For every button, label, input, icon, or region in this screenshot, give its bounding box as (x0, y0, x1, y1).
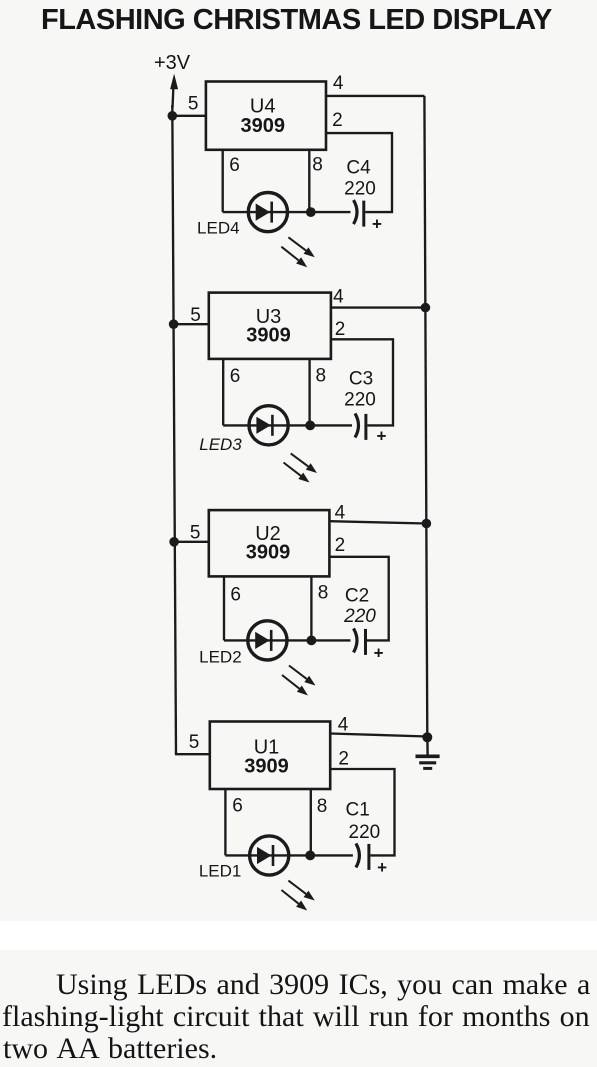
svg-text:6: 6 (230, 585, 241, 606)
svg-text:5: 5 (188, 94, 199, 115)
wire U2 pin 6 down to LED anode (223, 576, 225, 640)
caption line 1 (56, 968, 590, 1002)
op-amp U3 3909 IC box (209, 293, 331, 359)
svg-text:2: 2 (335, 535, 346, 556)
junction dot U1 pin4 / ground (422, 732, 432, 742)
wire U4 pin 5 to rail (172, 115, 206, 117)
caption line 3 (3, 1032, 217, 1066)
wire U3 pin 5 to rail (174, 323, 209, 325)
svg-text:C1: C1 (346, 800, 370, 821)
svg-text:5: 5 (190, 522, 201, 543)
wire U2 pin 2 to capacitor C2 (329, 557, 388, 641)
title (41, 4, 552, 37)
wire U4 pin 4 to right rail (326, 95, 424, 97)
LED3 light emission arrows (284, 453, 318, 482)
svg-text:+: + (372, 214, 382, 233)
LED LED3 (249, 406, 288, 445)
svg-text:6: 6 (232, 796, 243, 817)
junction dot rail/U3 pin 4 (421, 303, 431, 313)
svg-text:2: 2 (335, 319, 346, 340)
svg-text:220: 220 (349, 822, 381, 843)
wire LED row LED2 (224, 639, 351, 641)
wire U1 pin 6 down to LED anode (224, 789, 226, 855)
wire U3 pin 4 to right rail (331, 306, 426, 308)
junction dot rail/U2 pin 5 (169, 537, 179, 547)
ground (416, 737, 440, 768)
wire LED row LED1 (225, 854, 353, 856)
svg-text:4: 4 (338, 715, 349, 736)
svg-text:5: 5 (190, 305, 201, 326)
capacitor C4 (354, 200, 364, 227)
op-amp U4 3909 IC box (206, 82, 326, 150)
svg-text:LED3: LED3 (199, 435, 242, 454)
wire LED row LED3 (223, 424, 352, 426)
svg-text:+3V: +3V (154, 52, 191, 74)
+3V arrow terminal (170, 74, 178, 108)
svg-text:2: 2 (332, 110, 343, 131)
junction dot LED2 cathode / pin 8 / C2 (307, 636, 317, 646)
op-amp U1 3909 IC box (210, 722, 330, 790)
svg-text:5: 5 (189, 732, 200, 753)
wire U4 pin 2 to capacitor C4 (326, 133, 392, 212)
wire U4 pin 8 down to LED cathode junction (308, 150, 310, 212)
capacitor C3 (355, 413, 366, 440)
junction dot LED1 cathode / pin 8 / C1 (305, 851, 315, 861)
svg-text:220: 220 (344, 390, 376, 411)
LED4 light emission arrows (281, 237, 314, 267)
junction dot LED3 cathode / pin 8 / C3 (305, 421, 315, 431)
svg-text:LED2: LED2 (199, 647, 242, 666)
svg-text:LED4: LED4 (197, 219, 240, 238)
wire bottom-left corner to U1 pin 5 (176, 753, 210, 755)
svg-text:4: 4 (333, 73, 344, 94)
svg-text:3909: 3909 (241, 115, 286, 137)
wire U4 pin 6 down to LED anode (222, 150, 224, 212)
junction dot rail/U2 pin 4 (422, 519, 432, 529)
svg-text:4: 4 (335, 502, 346, 523)
wire left supply rail (172, 105, 176, 754)
svg-text:2: 2 (338, 748, 349, 769)
op-amp U2 3909 IC box (209, 510, 330, 576)
svg-text:+: + (374, 643, 384, 662)
svg-text:+: + (377, 426, 387, 445)
LED LED1 (250, 836, 289, 875)
svg-text:+: + (377, 858, 387, 877)
svg-text:C2: C2 (345, 586, 369, 607)
junction dot rail/U4 pin 5 (168, 111, 178, 121)
svg-text:4: 4 (333, 286, 344, 307)
svg-text:C4: C4 (346, 158, 371, 179)
wire U3 pin 6 down to LED anode (222, 359, 224, 426)
wire LED row LED4 (223, 211, 351, 213)
wire U3 pin 8 down to LED cathode junction (308, 359, 310, 426)
svg-text:8: 8 (318, 583, 329, 604)
svg-text:220: 220 (344, 179, 376, 200)
caption line 2 (2, 1000, 590, 1034)
junction dot rail/U1 pin 4 (423, 733, 433, 743)
svg-text:3909: 3909 (246, 325, 291, 347)
svg-text:3909: 3909 (244, 756, 289, 778)
svg-text:6: 6 (229, 155, 240, 176)
svg-text:6: 6 (230, 366, 241, 387)
wire U1 pin 8 down to LED cathode junction (310, 789, 312, 855)
wire U3 pin 2 to capacitor C3 (331, 339, 393, 425)
wire U2 pin 8 down to LED cathode junction (310, 576, 312, 640)
svg-text:220: 220 (343, 606, 376, 627)
svg-text:8: 8 (317, 796, 328, 817)
wire U2 pin 5 to rail (174, 541, 209, 543)
svg-text:3909: 3909 (246, 542, 291, 564)
wire U1 pin 2 to capacitor C1 (330, 769, 394, 855)
svg-text:C3: C3 (349, 369, 373, 390)
svg-text:8: 8 (312, 155, 323, 176)
junction dot LED4 cathode / pin 8 / C4 (306, 207, 316, 217)
svg-text:8: 8 (316, 365, 327, 386)
svg-text:LED1: LED1 (199, 861, 242, 880)
LED LED4 (248, 193, 287, 232)
white band separator (0, 921, 597, 950)
LED1 light emission arrows (281, 881, 314, 911)
LED LED2 (248, 621, 287, 660)
LED2 light emission arrows (282, 666, 316, 696)
capacitor C2 (354, 628, 366, 655)
junction dot rail/U3 pin 5 (169, 319, 179, 329)
capacitor C1 (356, 843, 369, 870)
wire right bus rail (424, 96, 427, 737)
wire U1 pin 4 to right rail (330, 734, 427, 737)
wire U2 pin 4 to right rail (329, 521, 426, 523)
